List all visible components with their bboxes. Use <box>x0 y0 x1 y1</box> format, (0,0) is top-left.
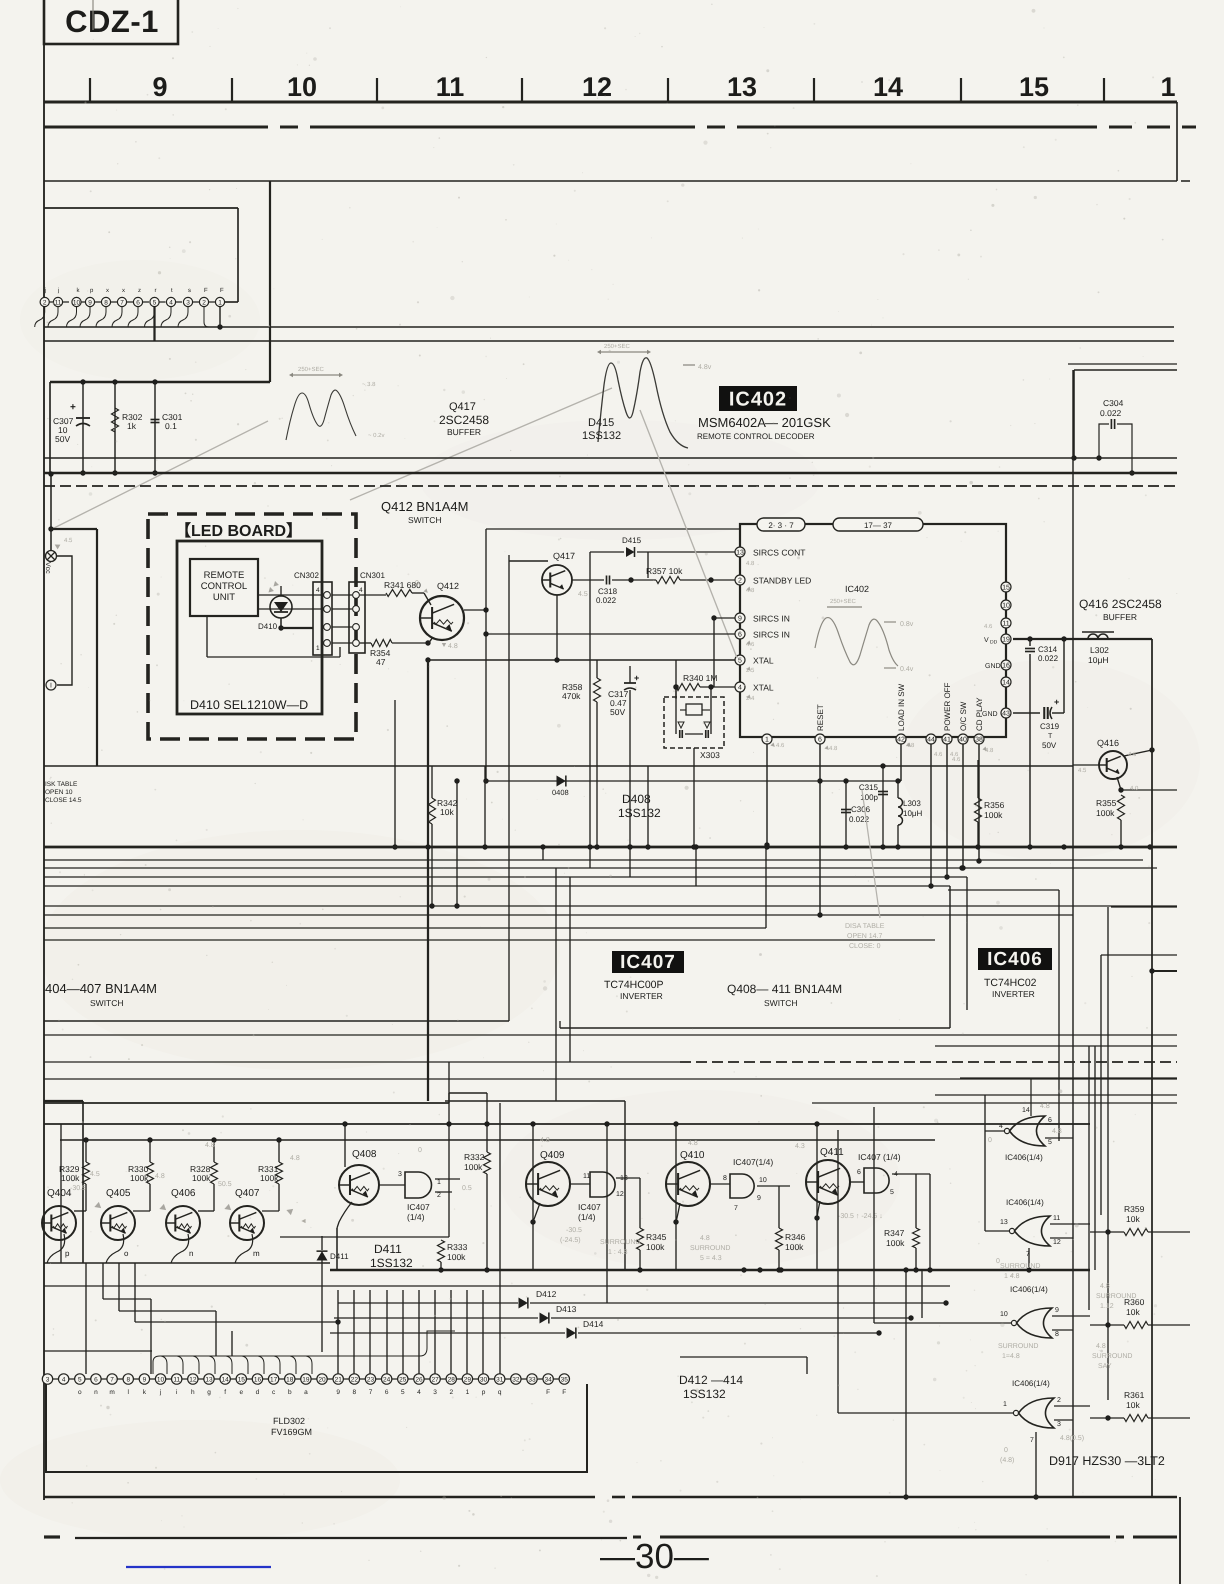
svg-text:22: 22 <box>351 1376 359 1383</box>
svg-text:10k: 10k <box>1126 1307 1140 1317</box>
svg-text:1: 1 <box>316 645 320 652</box>
svg-text:31: 31 <box>496 1376 504 1383</box>
svg-text:100k: 100k <box>260 1173 279 1183</box>
svg-text:100k: 100k <box>984 810 1003 820</box>
svg-text:IC406(1/4): IC406(1/4) <box>1010 1285 1048 1294</box>
svg-text:q: q <box>498 1389 502 1396</box>
svg-text:5 = 4.3: 5 = 4.3 <box>700 1255 722 1262</box>
svg-text:4.8: 4.8 <box>1040 1103 1050 1110</box>
svg-text:SURROUND: SURROUND <box>600 1239 640 1246</box>
svg-text:R356: R356 <box>984 800 1005 810</box>
svg-text:1: 1 <box>1003 1401 1007 1408</box>
svg-text:13: 13 <box>736 550 744 557</box>
svg-text:41: 41 <box>943 737 951 744</box>
svg-text:INVERTER: INVERTER <box>992 989 1035 999</box>
svg-text:Q411: Q411 <box>820 1147 844 1158</box>
svg-text:3: 3 <box>433 1389 437 1396</box>
svg-text:R359: R359 <box>1124 1204 1145 1214</box>
svg-text:4.8: 4.8 <box>1096 1343 1106 1350</box>
svg-text:D415: D415 <box>588 417 614 429</box>
svg-text:(-24.5): (-24.5) <box>560 1236 581 1244</box>
svg-text:15: 15 <box>238 1376 246 1383</box>
svg-text:REMOTE CONTROL DECODER: REMOTE CONTROL DECODER <box>697 432 815 441</box>
svg-text:3: 3 <box>46 1376 50 1383</box>
svg-text:1: 1 <box>218 299 222 306</box>
svg-text:DD: DD <box>990 640 998 646</box>
svg-text:◄: ◄ <box>300 1218 307 1225</box>
svg-text:4: 4 <box>999 1123 1003 1130</box>
svg-text:6: 6 <box>385 1389 389 1396</box>
svg-text:—30—: —30— <box>600 1537 709 1576</box>
svg-text:26: 26 <box>415 1376 423 1383</box>
svg-text:Q412 BN1A4M: Q412 BN1A4M <box>381 499 468 514</box>
svg-text:250+SEC: 250+SEC <box>604 343 631 350</box>
svg-text:12: 12 <box>582 72 612 102</box>
svg-text:16: 16 <box>1002 663 1010 670</box>
svg-text:5: 5 <box>1048 1139 1052 1146</box>
svg-text:33: 33 <box>528 1376 536 1383</box>
svg-text:4.6: 4.6 <box>1128 751 1137 758</box>
svg-text:g: g <box>207 1389 211 1396</box>
svg-text:GND: GND <box>982 711 998 718</box>
svg-text:R333: R333 <box>447 1242 468 1252</box>
svg-text:4.0: 4.0 <box>1130 785 1139 792</box>
svg-text:17— 37: 17— 37 <box>864 521 893 530</box>
svg-text:4.8: 4.8 <box>746 560 755 567</box>
svg-text:Vcc: Vcc <box>44 562 51 574</box>
svg-text:UNIT: UNIT <box>213 592 235 603</box>
svg-text:10k: 10k <box>1126 1214 1140 1224</box>
svg-text:4.5: 4.5 <box>1078 767 1087 774</box>
svg-text:0.022: 0.022 <box>1038 654 1059 663</box>
svg-text:IC407: IC407 <box>620 952 676 973</box>
svg-text:4.8: 4.8 <box>1100 1283 1110 1290</box>
svg-text:14: 14 <box>1002 680 1010 687</box>
svg-text:2: 2 <box>1057 1397 1061 1404</box>
svg-text:50V: 50V <box>55 434 70 444</box>
svg-text:25: 25 <box>399 1376 407 1383</box>
svg-text:m: m <box>109 1389 114 1396</box>
svg-text:R355: R355 <box>1096 798 1117 808</box>
svg-text:15: 15 <box>1019 72 1049 102</box>
svg-text:250+SEC: 250+SEC <box>298 366 325 373</box>
svg-text:100k: 100k <box>61 1173 80 1183</box>
svg-text:23: 23 <box>367 1376 375 1383</box>
svg-text:IC407: IC407 <box>578 1202 601 1212</box>
svg-text:0.5: 0.5 <box>462 1185 472 1192</box>
svg-text:D917 HZS30 —3LT2: D917 HZS30 —3LT2 <box>1049 1454 1165 1468</box>
svg-text:11: 11 <box>436 72 465 102</box>
svg-text:42: 42 <box>897 737 905 744</box>
svg-text:43: 43 <box>1002 711 1010 718</box>
svg-text:R340 1M: R340 1M <box>683 673 718 683</box>
svg-text:SWITCH: SWITCH <box>764 998 798 1008</box>
svg-text:4.8: 4.8 <box>205 1142 215 1149</box>
svg-text:0: 0 <box>418 1147 422 1154</box>
svg-text:SIRCS IN: SIRCS IN <box>753 630 790 640</box>
svg-text:p: p <box>65 1249 70 1258</box>
svg-text:F: F <box>562 1389 566 1396</box>
svg-text:100k: 100k <box>192 1173 211 1183</box>
svg-text:OPEN 14.7: OPEN 14.7 <box>847 933 883 940</box>
svg-text:4.8: 4.8 <box>829 745 838 752</box>
svg-text:I: I <box>50 683 52 690</box>
svg-text:a: a <box>304 1389 308 1396</box>
svg-text:100k: 100k <box>464 1162 483 1172</box>
svg-text:35: 35 <box>561 1376 569 1383</box>
svg-text:CLOSE 14.5: CLOSE 14.5 <box>45 797 82 804</box>
svg-text:10k: 10k <box>1126 1400 1140 1410</box>
svg-text:Q404: Q404 <box>47 1188 72 1199</box>
svg-text:0.022: 0.022 <box>596 596 617 605</box>
svg-text:C319: C319 <box>1040 722 1060 731</box>
svg-text:5: 5 <box>401 1389 405 1396</box>
svg-text:1k: 1k <box>127 421 137 431</box>
svg-text:Q416: Q416 <box>1097 738 1119 748</box>
svg-text:7: 7 <box>1030 1437 1034 1444</box>
svg-text:SWITCH: SWITCH <box>408 515 442 525</box>
svg-text:z: z <box>138 288 141 294</box>
svg-text:p: p <box>482 1389 486 1396</box>
svg-text:D410 SEL1210W—D: D410 SEL1210W—D <box>190 698 308 712</box>
svg-text:6: 6 <box>136 299 140 306</box>
svg-text:4.6: 4.6 <box>776 742 785 749</box>
svg-text:100k: 100k <box>785 1242 804 1252</box>
svg-text:14: 14 <box>222 1376 230 1383</box>
svg-text:4.5: 4.5 <box>578 591 588 598</box>
svg-text:L303: L303 <box>903 799 921 808</box>
svg-text:10: 10 <box>287 72 317 102</box>
svg-text:10μH: 10μH <box>1088 655 1109 665</box>
svg-text:D410: D410 <box>258 622 278 631</box>
svg-text:j: j <box>159 1389 161 1396</box>
svg-text:-30.5: -30.5 <box>70 1185 86 1192</box>
svg-text:9: 9 <box>336 1389 340 1396</box>
svg-text:F: F <box>220 287 224 294</box>
svg-text:Q417: Q417 <box>449 401 476 413</box>
svg-text:CONTROL: CONTROL <box>201 581 247 592</box>
svg-text:DISA TABLE: DISA TABLE <box>845 923 885 930</box>
svg-text:2: 2 <box>437 1192 441 1199</box>
svg-text:12: 12 <box>1053 1239 1061 1246</box>
svg-text:8: 8 <box>126 1376 130 1383</box>
svg-text:CLOSE: 0: CLOSE: 0 <box>849 943 881 950</box>
svg-text:0.4v: 0.4v <box>900 666 914 673</box>
svg-text:Q410: Q410 <box>680 1150 705 1161</box>
svg-text:F: F <box>546 1389 550 1396</box>
svg-text:SURROUND: SURROUND <box>1096 1293 1136 1300</box>
svg-text:SURROUND: SURROUND <box>1000 1263 1040 1270</box>
svg-text:4.8v: 4.8v <box>698 364 712 371</box>
svg-text:3: 3 <box>1057 1421 1061 1428</box>
svg-text:Q416 2SC2458: Q416 2SC2458 <box>1079 597 1162 611</box>
svg-text:4: 4 <box>359 587 363 594</box>
svg-text:TC74HC00P: TC74HC00P <box>604 979 664 991</box>
svg-text:Q412: Q412 <box>437 581 459 591</box>
svg-text:SIRCS IN: SIRCS IN <box>753 614 790 624</box>
svg-text:IC406(1/4): IC406(1/4) <box>1006 1198 1044 1207</box>
svg-text:j: j <box>44 287 46 294</box>
svg-text:-30.5 ↑ -24.5 ↓: -30.5 ↑ -24.5 ↓ <box>838 1213 883 1220</box>
svg-text:4: 4 <box>417 1389 421 1396</box>
svg-text:R345: R345 <box>646 1232 667 1242</box>
svg-text:13: 13 <box>205 1376 213 1383</box>
svg-text:o: o <box>78 1389 82 1396</box>
svg-text:i: i <box>176 1389 177 1396</box>
svg-text:100k: 100k <box>447 1252 466 1262</box>
svg-text:4.8(0.5): 4.8(0.5) <box>1060 1434 1084 1442</box>
svg-text:MSM6402A: MSM6402A <box>698 415 766 430</box>
svg-text:2SC2458: 2SC2458 <box>439 413 489 427</box>
svg-text:0: 0 <box>1004 1447 1008 1454</box>
svg-text:R361: R361 <box>1124 1390 1145 1400</box>
svg-text:1: 1 <box>1160 72 1175 102</box>
svg-text:Q417: Q417 <box>553 551 575 561</box>
svg-text:BUFFER: BUFFER <box>1103 612 1137 622</box>
svg-text:6: 6 <box>1048 1117 1052 1124</box>
svg-text:4.5: 4.5 <box>90 1171 100 1178</box>
svg-text:13: 13 <box>1000 1219 1008 1226</box>
svg-text:Q406: Q406 <box>171 1188 196 1199</box>
svg-text:14: 14 <box>873 72 903 102</box>
svg-text:10: 10 <box>1002 603 1010 610</box>
svg-text:11: 11 <box>1053 1215 1060 1222</box>
svg-text:(1/4): (1/4) <box>578 1212 596 1222</box>
svg-text:250+SEC: 250+SEC <box>830 598 857 605</box>
svg-text:CDZ-1: CDZ-1 <box>65 4 159 39</box>
svg-text:40: 40 <box>959 737 967 744</box>
svg-text:IC406: IC406 <box>987 949 1043 970</box>
svg-text:4.8: 4.8 <box>155 1173 165 1180</box>
svg-text:C306: C306 <box>851 805 871 814</box>
svg-text:0.8v: 0.8v <box>900 621 914 628</box>
svg-text:5: 5 <box>890 1189 894 1196</box>
svg-text:FV169GM: FV169GM <box>271 1427 312 1437</box>
svg-text:10k: 10k <box>440 807 454 817</box>
svg-text:— 201GSK: — 201GSK <box>765 415 831 430</box>
svg-text:19: 19 <box>302 1376 310 1383</box>
svg-text:R357 10k: R357 10k <box>646 566 683 576</box>
svg-text:9: 9 <box>1055 1307 1059 1314</box>
svg-text:o: o <box>124 1249 129 1258</box>
svg-text:6: 6 <box>94 1376 98 1383</box>
svg-text:b: b <box>288 1389 292 1396</box>
svg-text:h: h <box>191 1389 195 1396</box>
svg-text:BUFFER: BUFFER <box>447 427 481 437</box>
svg-text:+: + <box>70 402 76 413</box>
svg-text:8: 8 <box>353 1389 357 1396</box>
svg-text:24: 24 <box>383 1376 391 1383</box>
svg-text:50.5: 50.5 <box>218 1181 232 1188</box>
svg-text:50V: 50V <box>610 707 625 717</box>
svg-text:SURROUND: SURROUND <box>998 1343 1038 1350</box>
svg-text:4.6: 4.6 <box>984 623 993 630</box>
svg-text:4.8: 4.8 <box>448 643 458 650</box>
svg-text:GND: GND <box>985 663 1001 670</box>
svg-text:x: x <box>122 288 125 294</box>
svg-text:D411: D411 <box>330 1252 349 1261</box>
svg-text:6: 6 <box>857 1169 861 1176</box>
svg-text:13: 13 <box>727 72 757 102</box>
svg-text:D413: D413 <box>556 1304 577 1314</box>
svg-text:n: n <box>94 1389 98 1396</box>
svg-text:FLD302: FLD302 <box>273 1416 305 1426</box>
svg-text:2: 2 <box>738 578 742 585</box>
svg-text:4.8: 4.8 <box>1052 1128 1062 1135</box>
svg-text:14: 14 <box>1022 1107 1030 1114</box>
svg-text:LOAD IN SW: LOAD IN SW <box>897 683 906 731</box>
svg-text:44: 44 <box>927 737 935 744</box>
svg-text:SURROUND: SURROUND <box>1092 1353 1132 1360</box>
svg-text:18: 18 <box>286 1376 294 1383</box>
svg-text:2· 3 · 7: 2· 3 · 7 <box>768 521 794 530</box>
svg-text:D414: D414 <box>583 1319 604 1329</box>
svg-text:(1/4): (1/4) <box>407 1212 425 1222</box>
svg-text:4.6: 4.6 <box>934 751 943 758</box>
svg-text:OPEN 10: OPEN 10 <box>45 789 73 796</box>
svg-text:XTAL: XTAL <box>753 656 774 666</box>
svg-text:5: 5 <box>738 658 742 665</box>
svg-text:7: 7 <box>1026 1251 1030 1258</box>
svg-text:ISK TABLE: ISK TABLE <box>45 781 78 788</box>
svg-text:20: 20 <box>318 1376 326 1383</box>
svg-text:10: 10 <box>73 299 81 306</box>
svg-text:100k: 100k <box>130 1173 149 1183</box>
svg-text:D412 —414: D412 —414 <box>679 1373 743 1387</box>
svg-text:Q409: Q409 <box>540 1150 565 1161</box>
svg-text:4.8: 4.8 <box>688 1140 698 1147</box>
svg-text:m: m <box>253 1249 260 1258</box>
svg-text:SAY: SAY <box>1098 1363 1112 1370</box>
svg-text:9: 9 <box>143 1376 147 1383</box>
svg-text:f: f <box>224 1389 226 1396</box>
svg-text:7: 7 <box>110 1376 114 1383</box>
svg-text:Q405: Q405 <box>106 1188 131 1199</box>
svg-text:+: + <box>1054 697 1059 707</box>
svg-text:1: 1 <box>466 1389 470 1396</box>
svg-text:D415: D415 <box>622 536 642 545</box>
svg-text:7: 7 <box>734 1205 738 1212</box>
svg-text:17: 17 <box>270 1376 278 1383</box>
svg-text:1SS132: 1SS132 <box>582 430 621 442</box>
svg-text:5: 5 <box>153 299 157 306</box>
svg-text:C318: C318 <box>598 587 618 596</box>
svg-text:9: 9 <box>738 616 742 623</box>
svg-text:34: 34 <box>545 1376 553 1383</box>
svg-text:T: T <box>1048 733 1053 740</box>
svg-text:SIRCS CONT: SIRCS CONT <box>753 548 805 558</box>
svg-text:4: 4 <box>62 1376 66 1383</box>
svg-text:s: s <box>188 288 191 294</box>
svg-text:4.8: 4.8 <box>540 1137 550 1144</box>
svg-text:100k: 100k <box>886 1238 905 1248</box>
svg-text:10μH: 10μH <box>903 809 923 818</box>
svg-text:4.3: 4.3 <box>795 1143 805 1150</box>
svg-text:4.5: 4.5 <box>64 537 73 544</box>
svg-text:IC406(1/4): IC406(1/4) <box>1012 1379 1050 1388</box>
svg-text:IC407: IC407 <box>407 1202 430 1212</box>
svg-text:CD PLAY: CD PLAY <box>975 697 984 731</box>
svg-text:4: 4 <box>738 685 742 692</box>
svg-text:【LED BOARD】: 【LED BOARD】 <box>175 522 302 540</box>
svg-text:28: 28 <box>448 1376 456 1383</box>
svg-text:11: 11 <box>583 1173 590 1180</box>
svg-text:0: 0 <box>988 1137 992 1144</box>
svg-text:10: 10 <box>1000 1311 1008 1318</box>
svg-text:CN301: CN301 <box>360 571 385 580</box>
svg-text:0.022: 0.022 <box>1100 408 1122 418</box>
svg-text:IC407 (1/4): IC407 (1/4) <box>858 1152 901 1162</box>
svg-text:9: 9 <box>88 299 92 306</box>
svg-text:1.12: 1.12 <box>1100 1303 1114 1310</box>
svg-text:470k: 470k <box>562 691 581 701</box>
svg-text:(4.8): (4.8) <box>1000 1456 1014 1464</box>
svg-text:~ 0.2v: ~ 0.2v <box>368 432 385 439</box>
svg-text:Q408— 411 BN1A4M: Q408— 411 BN1A4M <box>727 982 842 996</box>
svg-text:15: 15 <box>1002 585 1010 592</box>
svg-text:O/C SW: O/C SW <box>959 701 968 731</box>
svg-text:F: F <box>204 287 208 294</box>
svg-text:10: 10 <box>157 1376 165 1383</box>
svg-text:8: 8 <box>104 299 108 306</box>
svg-text:IC402: IC402 <box>729 389 787 411</box>
svg-text:11: 11 <box>55 299 62 306</box>
svg-text:D411: D411 <box>374 1242 402 1256</box>
svg-text:Q408: Q408 <box>352 1149 377 1160</box>
svg-text:38: 38 <box>975 737 983 744</box>
svg-text:9: 9 <box>152 72 167 102</box>
svg-text:IC406(1/4): IC406(1/4) <box>1005 1153 1043 1162</box>
svg-text:19: 19 <box>1002 637 1010 644</box>
svg-text:-30.5: -30.5 <box>566 1227 582 1234</box>
svg-text:8: 8 <box>1055 1331 1059 1338</box>
svg-text:0.1: 0.1 <box>165 421 177 431</box>
svg-text:3: 3 <box>398 1171 402 1178</box>
svg-text:4.8: 4.8 <box>700 1235 710 1242</box>
svg-text:C314: C314 <box>1038 645 1058 654</box>
svg-text:30: 30 <box>480 1376 488 1383</box>
svg-text:8: 8 <box>723 1175 727 1182</box>
svg-text:2: 2 <box>202 299 206 306</box>
svg-text:4: 4 <box>169 299 173 306</box>
svg-text:CN302: CN302 <box>294 571 319 580</box>
svg-text:1=4.8: 1=4.8 <box>1002 1353 1020 1360</box>
svg-text:12: 12 <box>189 1376 197 1383</box>
svg-text:~ 3.8: ~ 3.8 <box>362 381 376 388</box>
svg-text:d: d <box>256 1389 260 1396</box>
svg-text:29: 29 <box>464 1376 472 1383</box>
svg-text:7: 7 <box>369 1389 373 1396</box>
svg-text:4.6: 4.6 <box>952 756 961 763</box>
svg-text:12: 12 <box>616 1191 624 1198</box>
svg-text:47: 47 <box>376 657 386 667</box>
svg-text:IC402: IC402 <box>845 584 869 594</box>
svg-text:D412: D412 <box>536 1289 557 1299</box>
svg-text:2: 2 <box>449 1389 453 1396</box>
svg-text:r: r <box>155 288 157 294</box>
svg-text:11: 11 <box>173 1376 180 1383</box>
svg-text:R332: R332 <box>464 1152 485 1162</box>
svg-text:27: 27 <box>431 1376 439 1383</box>
svg-text:1 : 4.8: 1 : 4.8 <box>608 1249 628 1256</box>
svg-text:21: 21 <box>335 1376 343 1383</box>
svg-text:50V: 50V <box>1042 741 1057 750</box>
svg-text:R346: R346 <box>785 1232 806 1242</box>
svg-text:9: 9 <box>757 1195 761 1202</box>
svg-text:STANDBY LED: STANDBY LED <box>753 576 811 586</box>
svg-text:Q407: Q407 <box>235 1188 260 1199</box>
svg-text:x: x <box>106 288 109 294</box>
